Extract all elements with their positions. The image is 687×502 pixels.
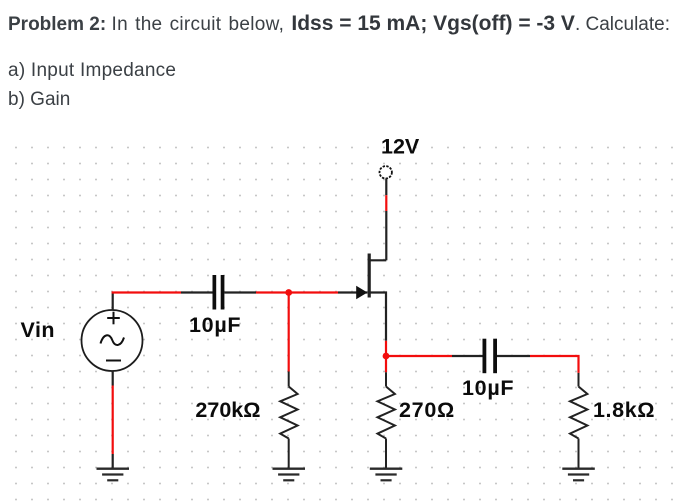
wire: gate node down to R1 (red)	[288, 293, 290, 372]
svg-text:10µF: 10µF	[462, 376, 514, 400]
transistor Q1 (N-JFET)	[338, 254, 386, 341]
ground (V1)	[97, 469, 130, 481]
svg-text:270Ω: 270Ω	[399, 398, 455, 422]
svg-text:Vin: Vin	[21, 318, 56, 342]
source V1 (AC source)	[82, 293, 143, 386]
node: gate junction	[285, 289, 292, 296]
svg-text:270kΩ: 270kΩ	[195, 398, 260, 422]
node: source junction	[383, 353, 390, 360]
wire: C2 to R3 (red)	[530, 356, 579, 373]
ground (R3)	[562, 469, 595, 481]
label 12V	[381, 135, 420, 159]
capacitor C1	[181, 275, 256, 310]
label 270kΩ	[195, 398, 260, 422]
label 1.8kΩ	[593, 398, 655, 422]
label Vin	[21, 318, 56, 342]
wire: source node to C2 (red)	[386, 355, 452, 357]
svg-text:12V: 12V	[381, 135, 420, 159]
resistor R2 270Ω	[378, 372, 395, 467]
ground (R1)	[273, 469, 306, 481]
label 270Ω	[399, 398, 455, 422]
svg-text:1.8kΩ: 1.8kΩ	[593, 398, 655, 422]
wire: C1 to gate node (red)	[256, 291, 338, 293]
capacitor C2	[452, 339, 530, 374]
label C1 10µF	[189, 313, 241, 337]
wire: V1 top to C1 (red)	[112, 291, 181, 293]
wire: Q1 source to source node (red)	[385, 341, 387, 373]
resistor R3 1.8kΩ	[570, 373, 587, 468]
label C2 10µF	[462, 376, 514, 400]
ground (R2)	[370, 469, 403, 481]
resistor R1 270kΩ	[280, 372, 297, 468]
wire: V1 bottom to ground (red)	[112, 386, 114, 468]
power terminal 12V	[380, 166, 392, 178]
svg-text:10µF: 10µF	[189, 313, 241, 337]
wire: terminal to Q1 drain (pin black, wire red)	[385, 179, 387, 261]
